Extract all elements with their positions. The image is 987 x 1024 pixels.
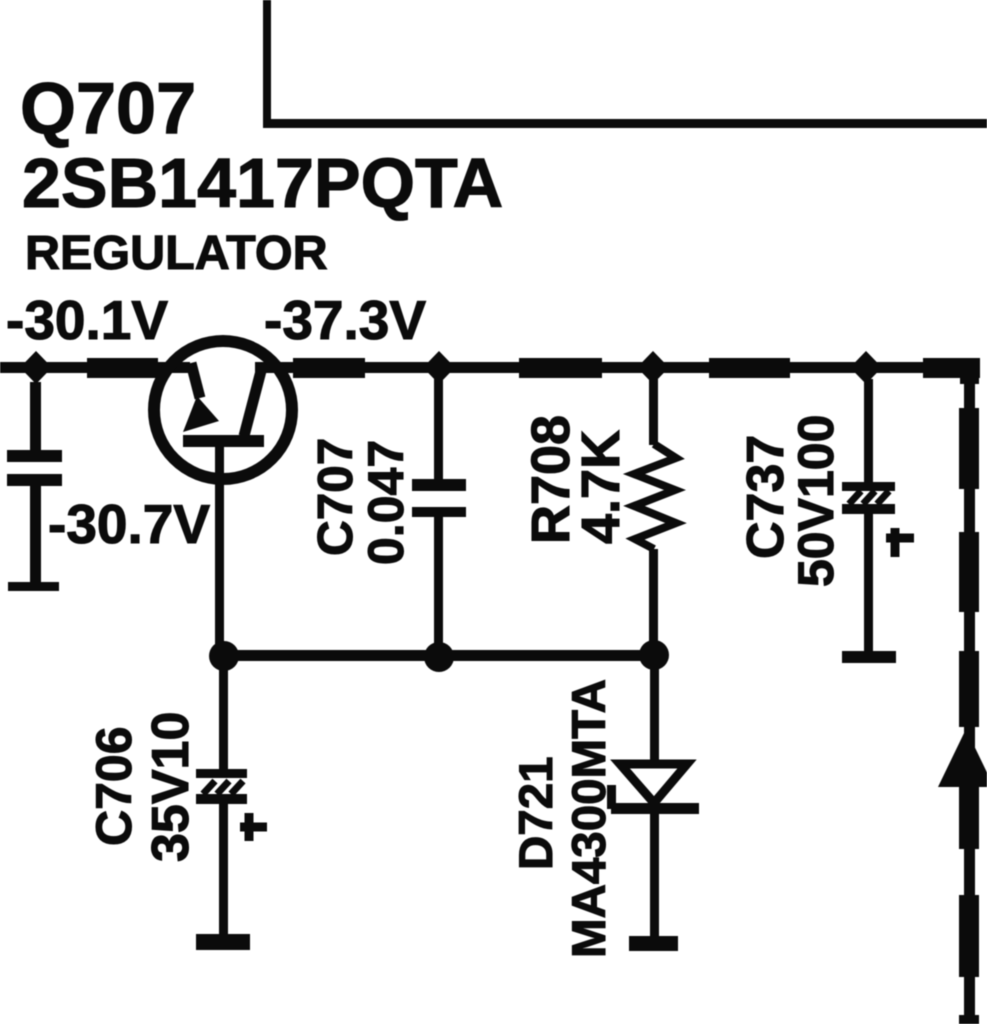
capacitor C706 hatch stripes	[203, 781, 243, 794]
resistor R708 bottom lead	[649, 549, 658, 655]
capacitor C737 positive plate bar	[842, 482, 895, 491]
node junction lower rail at x224	[209, 641, 239, 671]
svg-text:-30.1V: -30.1V	[6, 289, 168, 351]
wire: right rail thick dash d	[959, 787, 979, 849]
diode D721 terminal bar	[629, 936, 678, 951]
capacitor C707 bottom lead	[434, 517, 443, 657]
transistor emitter arrow	[183, 396, 219, 432]
wire: right vertical rail thin	[964, 368, 975, 1024]
wire: thick dash on rail 5 at corner	[923, 358, 980, 378]
capacitor C706 top lead	[219, 661, 228, 769]
capacitor (left) plate 1	[7, 450, 62, 462]
svg-text:C737: C737	[737, 435, 795, 559]
capacitor C737 terminal bar	[842, 651, 896, 663]
capacitor C706 plus sign	[240, 813, 267, 841]
wire: lower horizontal rail	[222, 650, 655, 661]
transistor collector slant	[244, 371, 261, 436]
capacitor C706 bottom lead	[219, 804, 228, 934]
wire: main horizontal rail left segment	[0, 362, 190, 373]
svg-text:REGULATOR: REGULATOR	[25, 226, 328, 280]
node junction lower rail at x439	[424, 642, 454, 672]
node junction on rail at x653	[637, 351, 669, 384]
capacitor C737 lower plate bar	[842, 504, 895, 514]
capacitor (left) bottom lead	[30, 486, 41, 582]
capacitor C737 hatch stripes	[849, 491, 889, 504]
svg-text:4.7K: 4.7K	[571, 430, 631, 544]
capacitor C707 plate 2	[412, 507, 466, 517]
wire: corner elbow top right	[960, 358, 979, 384]
capacitor C707 plate 1	[412, 479, 466, 491]
resistor R708 zigzag body	[634, 444, 676, 549]
wire: right rail thick dash b	[959, 532, 979, 612]
svg-text:D721: D721	[510, 756, 563, 870]
wire: thick dash on rail 1	[87, 358, 158, 378]
svg-text:50V100: 50V100	[788, 415, 844, 587]
svg-text:C707: C707	[308, 438, 363, 556]
wire: main horizontal rail right segment	[255, 362, 970, 373]
diode D721 bottom lead	[650, 814, 659, 936]
svg-text:35V10: 35V10	[142, 712, 200, 862]
block border corner (top box) horizontal edge	[263, 119, 987, 128]
wire: right rail thick dash a	[959, 408, 979, 489]
block border corner (top box) vertical edge	[263, 0, 271, 128]
flow arrow on right rail	[938, 729, 987, 787]
capacitor C737 top lead	[864, 379, 873, 482]
transistor Q1 circle	[154, 341, 292, 479]
transistor base lead down	[215, 447, 224, 656]
node junction lower rail at x654	[639, 640, 669, 670]
svg-text:Q707: Q707	[20, 69, 196, 149]
node junction on rail at x36	[20, 351, 52, 384]
diode D721 cathode left tick	[607, 785, 616, 809]
diode D721 triangle	[620, 764, 687, 803]
capacitor C737 plus sign	[886, 528, 914, 557]
diode D721 cathode bar	[611, 803, 699, 814]
svg-text:MA4300MTA: MA4300MTA	[563, 679, 616, 958]
transistor base bar	[183, 435, 264, 447]
wire: right rail thick dash f	[959, 1015, 979, 1024]
svg-text:-37.3V: -37.3V	[264, 289, 426, 351]
wire: thick dash on rail 3	[519, 358, 602, 378]
capacitor (left, unlabeled) top lead	[30, 382, 41, 450]
transistor emitter slant	[191, 363, 200, 398]
wire: thick dash on rail 4	[709, 358, 790, 378]
capacitor C706 positive plate bar	[196, 769, 247, 778]
svg-text:0.047: 0.047	[358, 440, 414, 565]
capacitor C706 lower plate bar	[196, 794, 247, 804]
wire: right rail thick dash e	[959, 895, 979, 977]
wire: thick dash on rail 2	[293, 358, 365, 378]
node junction on rail at x439	[423, 351, 455, 384]
capacitor (left) plate 2	[7, 474, 62, 486]
svg-text:-30.7V: -30.7V	[48, 493, 210, 555]
capacitor C707 top lead	[434, 379, 443, 479]
resistor R708 top lead	[649, 379, 658, 445]
node junction on rail at x866	[850, 351, 882, 384]
capacitor C737 bottom lead	[864, 514, 873, 651]
capacitor (left) terminal bar	[8, 582, 59, 591]
svg-text:C706: C706	[86, 726, 142, 846]
svg-text:2SB1417PQTA: 2SB1417PQTA	[22, 144, 503, 222]
wire: right rail thick dash c	[959, 651, 979, 727]
diode D721 top lead	[650, 661, 659, 764]
capacitor C706 terminal bar	[196, 934, 250, 950]
